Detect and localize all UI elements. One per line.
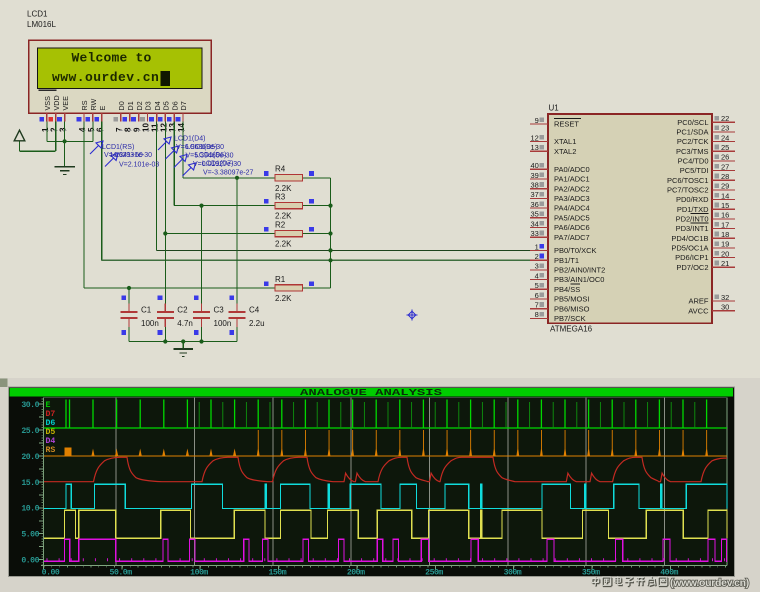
svg-text:PD0/RXD: PD0/RXD	[676, 195, 709, 204]
svg-text:PB6/MISO: PB6/MISO	[554, 304, 590, 313]
svg-text:VSS: VSS	[43, 96, 52, 111]
svg-text:VEE: VEE	[61, 96, 70, 111]
svg-text:25: 25	[721, 143, 729, 152]
svg-text:AVCC: AVCC	[688, 306, 709, 315]
svg-text:PC1/SDA: PC1/SDA	[676, 128, 708, 137]
svg-text:PA7/ADC7: PA7/ADC7	[554, 233, 590, 242]
svg-text:PD2/INT0: PD2/INT0	[676, 215, 709, 224]
svg-text:ATMEGA16: ATMEGA16	[550, 325, 593, 334]
svg-text:LCD1(RS): LCD1(RS)	[102, 144, 134, 151]
svg-text:2.2K: 2.2K	[275, 240, 292, 249]
svg-text:20.0: 20.0	[21, 453, 39, 462]
svg-text:28: 28	[721, 172, 729, 181]
svg-text:www.ourdev.cn: www.ourdev.cn	[52, 70, 159, 85]
svg-text:D2: D2	[135, 101, 144, 110]
svg-text:38: 38	[530, 181, 538, 190]
svg-text:34: 34	[530, 219, 538, 228]
svg-text:R2: R2	[275, 220, 286, 229]
svg-text:22: 22	[721, 114, 729, 123]
svg-text:VDD: VDD	[52, 95, 61, 110]
svg-text:27: 27	[721, 162, 729, 171]
svg-text:7: 7	[535, 301, 539, 310]
svg-text:XTAL1: XTAL1	[554, 137, 576, 146]
svg-text:14: 14	[721, 191, 729, 200]
svg-text:200m: 200m	[347, 568, 365, 577]
svg-text:4: 4	[535, 271, 539, 280]
svg-text:12: 12	[530, 133, 538, 142]
svg-text:2.2K: 2.2K	[275, 294, 292, 303]
svg-text:39: 39	[530, 171, 538, 180]
svg-text:PD4/OC1B: PD4/OC1B	[671, 234, 708, 243]
svg-text:37: 37	[530, 190, 538, 199]
svg-text:PD5/OC1A: PD5/OC1A	[671, 244, 708, 253]
svg-text:30.0: 30.0	[21, 401, 39, 410]
svg-text:1.2341+60: 1.2341+60	[110, 152, 143, 159]
svg-text:AREF: AREF	[688, 297, 708, 306]
svg-text:D4: D4	[46, 437, 56, 446]
svg-text:2.2u: 2.2u	[249, 319, 265, 328]
svg-text:PA4/ADC4: PA4/ADC4	[554, 204, 590, 213]
svg-text:PC6/TOSC1: PC6/TOSC1	[667, 176, 709, 185]
svg-text:20: 20	[721, 249, 729, 258]
svg-text:PB3/AIN1/OC0: PB3/AIN1/OC0	[554, 275, 604, 284]
svg-text:100n: 100n	[214, 319, 232, 328]
svg-text:PA0/ADC0: PA0/ADC0	[554, 165, 590, 174]
svg-text:PC7/TOSC2: PC7/TOSC2	[667, 186, 709, 195]
svg-text:350m: 350m	[582, 568, 600, 577]
svg-text:2.2K: 2.2K	[275, 212, 292, 221]
svg-text:33: 33	[530, 229, 538, 238]
svg-text:Welcome to: Welcome to	[72, 51, 152, 66]
svg-text:D1: D1	[126, 101, 135, 110]
svg-text:21: 21	[721, 259, 729, 268]
svg-text:7: 7	[115, 127, 124, 132]
svg-text:PA5/ADC5: PA5/ADC5	[554, 213, 590, 222]
svg-text:D4: D4	[153, 101, 162, 110]
svg-text:LM016L: LM016L	[27, 20, 56, 29]
svg-text:R3: R3	[275, 192, 286, 201]
svg-text:250m: 250m	[425, 568, 443, 577]
svg-text:8: 8	[124, 127, 133, 132]
svg-text:50.0m: 50.0m	[110, 568, 133, 577]
svg-text:25.0: 25.0	[21, 427, 39, 436]
svg-text:V=-3.38097e-27: V=-3.38097e-27	[203, 170, 254, 177]
svg-text:R1: R1	[275, 275, 286, 284]
svg-text:PC3/TMS: PC3/TMS	[676, 147, 709, 156]
svg-text:PA1/ADC1: PA1/ADC1	[554, 175, 590, 184]
svg-text:19: 19	[721, 240, 729, 249]
svg-text:PD1/TXD: PD1/TXD	[677, 205, 709, 214]
svg-text:23: 23	[721, 124, 729, 133]
svg-text:D7: D7	[179, 101, 188, 110]
svg-text:RW: RW	[89, 98, 98, 110]
svg-text:PB7/SCK: PB7/SCK	[554, 314, 586, 323]
svg-text:9: 9	[535, 116, 539, 125]
svg-text:R4: R4	[275, 165, 286, 174]
svg-text:V=2.101e-03: V=2.101e-03	[119, 162, 159, 169]
svg-text:100n: 100n	[141, 319, 159, 328]
svg-text:PB4/SS: PB4/SS	[554, 285, 580, 294]
svg-text:5: 5	[535, 281, 539, 290]
svg-text:U1: U1	[549, 104, 560, 113]
svg-text:3: 3	[535, 262, 539, 271]
svg-text:E: E	[46, 401, 51, 410]
svg-text:0.00: 0.00	[21, 556, 39, 565]
svg-text:RS: RS	[80, 100, 89, 110]
svg-text:D0: D0	[117, 101, 126, 110]
svg-text:5.00: 5.00	[21, 531, 39, 540]
svg-text:D6: D6	[170, 101, 179, 110]
svg-text:0.00: 0.00	[42, 568, 60, 577]
svg-text:1: 1	[41, 127, 50, 132]
svg-text:2: 2	[50, 127, 59, 132]
svg-text:LCD1(D5): LCD1(D5)	[186, 144, 218, 151]
svg-text:300m: 300m	[504, 568, 522, 577]
svg-text:5: 5	[87, 127, 96, 132]
svg-text:3: 3	[59, 127, 68, 132]
svg-text:ANALOGUE ANALYSIS: ANALOGUE ANALYSIS	[300, 387, 443, 398]
svg-text:XTAL2: XTAL2	[554, 147, 576, 156]
svg-text:PB1/T1: PB1/T1	[554, 256, 579, 265]
svg-text:(www.ourdev.cn): (www.ourdev.cn)	[670, 577, 749, 589]
svg-text:PD6/ICP1: PD6/ICP1	[675, 253, 708, 262]
svg-text:C1: C1	[141, 306, 152, 315]
svg-text:PC0/SCL: PC0/SCL	[677, 118, 708, 127]
svg-text:15.0: 15.0	[21, 479, 39, 488]
svg-text:PB0/T0/XCK: PB0/T0/XCK	[554, 246, 597, 255]
svg-text:100m: 100m	[190, 568, 208, 577]
svg-text:PC4/TD0: PC4/TD0	[678, 157, 709, 166]
svg-text:PD3/INT1: PD3/INT1	[676, 224, 709, 233]
svg-text:PA6/ADC6: PA6/ADC6	[554, 223, 590, 232]
svg-text:E: E	[98, 106, 107, 111]
svg-text:PB5/MOSI: PB5/MOSI	[554, 295, 589, 304]
svg-text:C4: C4	[249, 306, 260, 315]
svg-text:4: 4	[78, 127, 87, 132]
svg-text:LCD1(D4): LCD1(D4)	[174, 136, 206, 143]
svg-text:24: 24	[721, 133, 729, 142]
svg-text:2: 2	[535, 252, 539, 261]
svg-text:8: 8	[535, 310, 539, 319]
svg-text:26: 26	[721, 153, 729, 162]
svg-text:PD7/OC2: PD7/OC2	[676, 263, 708, 272]
svg-text:17: 17	[721, 220, 729, 229]
svg-text:LCD1(D7): LCD1(D7)	[202, 161, 234, 168]
svg-text:4.7n: 4.7n	[177, 319, 193, 328]
svg-text:16: 16	[721, 211, 729, 220]
svg-text:C3: C3	[214, 306, 225, 315]
svg-text:D6: D6	[46, 419, 56, 428]
svg-text:1: 1	[535, 242, 539, 251]
svg-text:LCD1: LCD1	[27, 10, 48, 19]
svg-text:PB2/AIN0/INT2: PB2/AIN0/INT2	[554, 266, 605, 275]
svg-text:30: 30	[721, 303, 729, 312]
svg-text:18: 18	[721, 230, 729, 239]
svg-text:35: 35	[530, 210, 538, 219]
svg-text:6: 6	[96, 127, 105, 132]
svg-text:D3: D3	[144, 101, 153, 110]
svg-text:D7: D7	[46, 410, 56, 419]
svg-text:RESET: RESET	[554, 120, 579, 129]
svg-text:15: 15	[721, 201, 729, 210]
svg-text:36: 36	[530, 200, 538, 209]
svg-text:PC5/TDI: PC5/TDI	[680, 166, 709, 175]
svg-text:C2: C2	[177, 306, 188, 315]
svg-text:RS: RS	[46, 446, 56, 455]
svg-text:PC2/TCK: PC2/TCK	[677, 137, 709, 146]
svg-text:13: 13	[530, 143, 538, 152]
svg-text:D5: D5	[162, 101, 171, 110]
svg-text:150m: 150m	[268, 568, 286, 577]
svg-text:10.0: 10.0	[21, 505, 39, 514]
svg-text:40: 40	[530, 161, 538, 170]
svg-text:LCD1(D6): LCD1(D6)	[195, 152, 227, 159]
svg-text:32: 32	[721, 293, 729, 302]
svg-text:29: 29	[721, 182, 729, 191]
svg-text:D5: D5	[46, 428, 56, 437]
svg-text:PA3/ADC3: PA3/ADC3	[554, 194, 590, 203]
svg-text:9: 9	[133, 127, 142, 132]
svg-text:PA2/ADC2: PA2/ADC2	[554, 184, 590, 193]
svg-text:6: 6	[535, 291, 539, 300]
